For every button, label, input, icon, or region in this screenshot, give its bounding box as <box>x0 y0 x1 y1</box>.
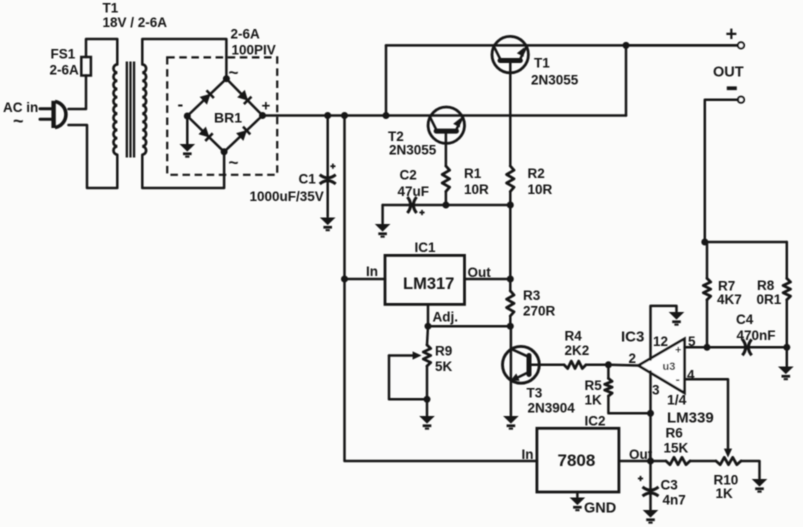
ground at C1 <box>320 218 336 232</box>
svg-text:R5: R5 <box>585 378 603 393</box>
svg-text:47uF: 47uF <box>398 184 430 199</box>
ground at C4 <box>778 367 794 381</box>
wire IC1 Adj lead <box>427 305 430 327</box>
transistor T3 2N3904 <box>503 346 540 384</box>
label R4 <box>565 329 590 359</box>
svg-text:IC3: IC3 <box>621 329 644 346</box>
bridge diode D1 (left-top edge) <box>200 90 215 105</box>
label R8 <box>757 278 782 307</box>
svg-text:LM339: LM339 <box>667 410 714 427</box>
svg-text:+: + <box>675 345 681 357</box>
wire C1 branch <box>326 116 329 217</box>
svg-text:~: ~ <box>229 153 239 172</box>
resistor R3 <box>507 291 514 316</box>
wire T3 collector/emitter line <box>510 326 513 415</box>
svg-text:12: 12 <box>653 334 668 349</box>
svg-text:2K2: 2K2 <box>565 343 590 358</box>
wire top rail <box>386 44 738 47</box>
svg-text:In: In <box>366 264 378 279</box>
terminal OUT plus <box>738 42 744 48</box>
svg-text:10R: 10R <box>528 182 553 197</box>
svg-text:1K: 1K <box>716 486 734 501</box>
svg-text:-: - <box>178 95 184 114</box>
svg-text:R2: R2 <box>528 166 545 181</box>
node top rail right <box>623 42 630 49</box>
svg-text:~: ~ <box>229 63 239 82</box>
node R3 bottom <box>507 323 514 330</box>
wire Out node to R6 <box>651 460 667 463</box>
ground at T3 <box>503 416 519 430</box>
terminal OUT minus <box>738 97 744 103</box>
resistor R8 <box>783 278 790 299</box>
node IC2 Out junction <box>647 458 654 465</box>
bridge diode D4 (bottom-right edge) <box>236 126 251 141</box>
bridge diode D3 (left-bottom edge) <box>198 127 213 142</box>
wire R1 to node <box>445 192 448 206</box>
wire C3 branch <box>649 461 652 510</box>
wire to plus terminal <box>626 44 738 47</box>
capacitor C3 <box>638 476 659 496</box>
svg-text:1K: 1K <box>585 393 603 408</box>
svg-text:1000uF/35V: 1000uF/35V <box>250 189 324 204</box>
wire plug bottom to transformer primary bottom <box>69 125 118 188</box>
svg-text:5: 5 <box>688 334 696 349</box>
node Adj junction <box>425 323 432 330</box>
wire C2 to ground <box>381 205 384 224</box>
svg-text:IC1: IC1 <box>415 240 437 255</box>
svg-text:R1: R1 <box>464 166 482 181</box>
resistor R7 <box>703 278 710 299</box>
svg-text:7808: 7808 <box>558 451 596 470</box>
svg-text:FS1: FS1 <box>51 47 76 62</box>
svg-text:GND: GND <box>584 501 616 517</box>
potentiometer R10 <box>716 449 741 465</box>
resistor R6 <box>666 457 690 464</box>
resistor R2 <box>507 166 514 192</box>
svg-text:2-6A: 2-6A <box>50 63 80 78</box>
svg-text:4: 4 <box>687 368 695 383</box>
wire IC1 In <box>345 278 386 281</box>
wire R2 node to IC1 Out <box>509 205 512 279</box>
ground at IC2 <box>570 498 586 512</box>
wire T3 base to R4 <box>539 364 564 367</box>
svg-text:100PIV: 100PIV <box>232 43 276 58</box>
svg-text:+: + <box>726 24 738 46</box>
ground at R10 <box>752 479 768 493</box>
wire sense top bar <box>705 241 787 244</box>
svg-text:1/4: 1/4 <box>667 392 687 408</box>
node R9 bottom <box>424 396 431 403</box>
label T3 <box>527 386 576 416</box>
svg-text:BR1: BR1 <box>214 110 242 126</box>
label OUT <box>713 65 744 81</box>
resistor R1 <box>442 166 449 192</box>
ground at C2 <box>375 224 391 238</box>
svg-text:IC2: IC2 <box>585 414 606 429</box>
wire pin3 drop <box>649 372 652 462</box>
node R8 pin5 <box>783 344 790 351</box>
label IC3 <box>621 329 644 346</box>
svg-text:C2: C2 <box>400 168 417 183</box>
svg-text:15K: 15K <box>664 441 689 456</box>
node pin2 input <box>605 361 612 368</box>
label IC1 <box>415 240 437 255</box>
wire R8 top lead <box>786 242 789 278</box>
wire C2 node row <box>383 204 511 207</box>
regulator IC1 LM317 <box>366 255 491 324</box>
svg-text:T3: T3 <box>527 386 543 401</box>
wire IC2 GND lead <box>576 492 579 497</box>
regulator IC2 7808 <box>522 428 653 492</box>
wire R10 to ground <box>741 461 760 479</box>
svg-text:0R1: 0R1 <box>757 292 782 307</box>
svg-text:LM317: LM317 <box>403 275 454 293</box>
svg-text:10R: 10R <box>464 182 489 197</box>
svg-text:u3: u3 <box>663 361 676 373</box>
wire pin4 <box>685 379 729 450</box>
label R5 <box>585 378 603 408</box>
svg-text:T1: T1 <box>534 56 550 71</box>
svg-text:+: + <box>262 98 271 115</box>
svg-text:2: 2 <box>629 351 637 366</box>
node regulator feed tap <box>341 112 348 119</box>
pin label 5 <box>688 334 696 349</box>
capacitor C1 <box>320 164 336 184</box>
node IC1 In tap <box>341 276 348 283</box>
svg-text:R6: R6 <box>666 426 684 441</box>
svg-text:2-6A: 2-6A <box>231 27 261 42</box>
node bridge top <box>223 75 230 82</box>
wire R7 bottom lead <box>706 300 709 348</box>
wire IC2 Out <box>619 460 651 463</box>
wire pin12 to ground <box>651 306 677 360</box>
svg-text:270R: 270R <box>523 304 556 319</box>
ground at bridge <box>180 144 196 158</box>
node bridge left <box>184 113 191 120</box>
label GND <box>584 501 616 517</box>
svg-text:In: In <box>522 447 534 462</box>
wire R9 top lead <box>427 326 428 345</box>
label R2 <box>528 166 553 197</box>
svg-text:2N3055: 2N3055 <box>389 143 437 158</box>
wire pin2 node to comparator <box>608 364 638 367</box>
bridge BR1 diamond <box>187 79 262 152</box>
wire R5 top lead <box>607 365 610 379</box>
transistor T1 2N3055 <box>492 36 528 72</box>
label R1 <box>464 166 489 197</box>
label IC2 <box>585 414 606 429</box>
label bridge plus <box>262 98 271 115</box>
node C1 tap <box>324 112 331 119</box>
wire minus terminal drop <box>705 100 738 242</box>
label AC in <box>3 100 38 131</box>
node bridge bottom <box>221 148 228 155</box>
node R7 pin5 <box>704 344 711 351</box>
svg-text:470nF: 470nF <box>737 328 776 343</box>
wire secondary bottom to bridge <box>142 152 224 188</box>
label T2 <box>388 129 437 158</box>
label bridge minus <box>178 95 184 114</box>
pin label 4 <box>687 368 695 383</box>
capacitor C2 <box>407 197 424 215</box>
label T1 <box>531 56 579 88</box>
node bridge right <box>259 112 266 119</box>
pin label 12 <box>653 334 668 349</box>
svg-text:R9: R9 <box>435 344 452 359</box>
label C2 <box>398 168 430 200</box>
label bridge rating <box>231 27 276 58</box>
wire R6 to R10 <box>690 460 716 463</box>
label 1/4 LM339 <box>667 392 714 427</box>
ground at R9 <box>419 416 435 430</box>
wire regulator input drop <box>345 116 537 462</box>
wire R8 bottom lead <box>786 300 789 348</box>
svg-text:5K: 5K <box>435 359 453 374</box>
label transformer T1 <box>103 1 168 31</box>
wire rail right leg <box>625 45 628 115</box>
wire R7 top lead <box>706 242 709 278</box>
svg-text:4n7: 4n7 <box>663 493 686 508</box>
ground at C3 <box>643 510 659 524</box>
svg-text:Adj.: Adj. <box>433 310 459 325</box>
wire T2 base to R1 <box>445 134 448 166</box>
wire R5 to pin3 node <box>608 396 650 413</box>
node sense top left <box>701 239 708 246</box>
label bridge ~ top <box>229 63 239 82</box>
label C1 <box>250 172 324 205</box>
label R10 <box>714 473 739 502</box>
wire pin5 <box>685 346 787 349</box>
svg-text:~: ~ <box>13 111 24 131</box>
node R2 bottom <box>507 202 514 209</box>
node IC1 Out <box>507 276 514 283</box>
svg-text:C1: C1 <box>299 172 317 187</box>
wire fuse to transformer primary top <box>86 39 117 65</box>
label R7 <box>717 279 742 308</box>
label bridge ~ bottom <box>229 153 239 172</box>
svg-text:OUT: OUT <box>713 65 744 81</box>
wire R9 to ground <box>426 366 429 416</box>
label R9 <box>435 344 453 375</box>
wire secondary top to bridge <box>142 39 226 79</box>
ground at IC3 pin12 <box>669 312 685 326</box>
svg-text:2N3055: 2N3055 <box>531 73 579 88</box>
fuse FS1 <box>81 57 91 76</box>
label R3 <box>523 288 556 319</box>
label minus <box>727 86 737 90</box>
svg-text:4K7: 4K7 <box>717 292 742 307</box>
svg-text:2N3904: 2N3904 <box>528 401 576 416</box>
wire C4 right to ground <box>786 347 789 366</box>
node pin3 junction <box>647 410 654 417</box>
wire R2 to node <box>509 192 512 206</box>
svg-text:-: - <box>676 372 680 387</box>
label FS1 <box>50 47 80 78</box>
label C3 <box>661 478 686 508</box>
resistor R4 <box>564 361 586 368</box>
wire IC1 Out <box>465 278 511 281</box>
svg-text:C3: C3 <box>661 478 679 493</box>
wire R4 to pin2 node <box>586 364 608 367</box>
label BR1 <box>214 110 242 126</box>
wire T1 base to R2 <box>509 63 512 166</box>
svg-text:3: 3 <box>652 383 660 398</box>
label plus <box>726 24 738 46</box>
bridge diode D2 (top-right edge) <box>237 90 252 105</box>
transformer T1 primary winding <box>113 64 117 154</box>
svg-text:18V / 2-6A: 18V / 2-6A <box>103 15 168 30</box>
transformer T1 core <box>126 62 136 158</box>
wire positive rail <box>263 114 627 117</box>
AC mains plug <box>40 101 66 128</box>
wire bridge minus to ground <box>186 116 189 144</box>
pin label 3 <box>652 383 660 398</box>
svg-text:R4: R4 <box>565 329 583 344</box>
pin label 2 <box>629 351 637 366</box>
bridge BR1 dashed box <box>167 57 277 174</box>
transformer T1 secondary winding <box>142 64 146 154</box>
resistor R5 <box>605 378 612 396</box>
svg-text:R3: R3 <box>523 288 541 303</box>
svg-text:C4: C4 <box>736 312 754 327</box>
potentiometer R9 <box>389 345 431 399</box>
wire Adj row <box>428 325 510 328</box>
node T1 left leg tap <box>383 112 390 119</box>
transistor T2 2N3055 <box>428 107 464 143</box>
label C4 <box>736 312 776 343</box>
label R6 <box>664 426 689 456</box>
node R1 bottom <box>442 202 449 209</box>
wire T1 left leg <box>385 45 388 115</box>
capacitor C4 <box>742 339 751 355</box>
svg-text:R8: R8 <box>757 278 775 293</box>
op-amp IC3 LM339 <box>639 339 685 393</box>
svg-text:T1: T1 <box>103 1 119 16</box>
wire plug top to fuse <box>69 76 87 110</box>
wire R3 leads <box>509 279 512 326</box>
